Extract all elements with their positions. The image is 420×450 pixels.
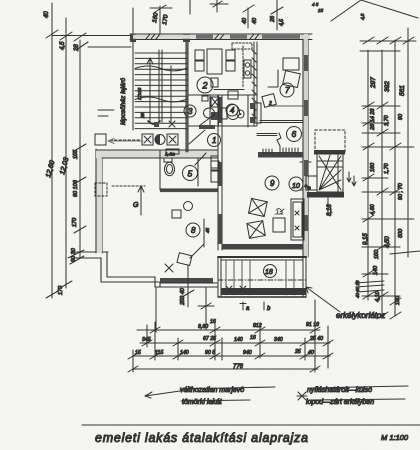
- svg-text:40: 40: [44, 11, 50, 18]
- svg-text:28: 28: [140, 112, 145, 119]
- svg-text:140: 140: [234, 337, 243, 343]
- svg-text:9,15: 9,15: [363, 233, 369, 245]
- svg-text:90: 90: [398, 113, 404, 120]
- svg-text:60 106: 60 106: [73, 179, 79, 197]
- svg-text:25: 25: [294, 349, 301, 355]
- svg-text:150: 150: [374, 249, 380, 259]
- svg-text:912: 912: [253, 323, 262, 329]
- svg-text:4,10: 4,10: [375, 290, 381, 302]
- svg-text:40: 40: [242, 17, 248, 24]
- svg-text:lépcsöház lejáró: lépcsöház lejáró: [120, 78, 127, 125]
- svg-text:2: 2: [268, 101, 272, 107]
- svg-text:91 18: 91 18: [306, 322, 319, 328]
- svg-text:140: 140: [373, 265, 379, 275]
- svg-text:115: 115: [155, 350, 163, 356]
- svg-text:16: 16: [250, 335, 256, 341]
- svg-text:9: 9: [270, 179, 275, 188]
- svg-text:10: 10: [292, 183, 300, 190]
- svg-text:28: 28: [74, 44, 80, 52]
- svg-text:250 40: 250 40: [180, 287, 186, 306]
- svg-text:1,4m: 1,4m: [165, 152, 175, 157]
- svg-text:16: 16: [210, 319, 216, 325]
- svg-text:140: 140: [180, 350, 189, 356]
- svg-text:170: 170: [72, 217, 78, 227]
- svg-text:4,60: 4,60: [370, 203, 376, 215]
- svg-text:17x18: 17x18: [137, 87, 142, 100]
- svg-text:28 14 28: 28 14 28: [370, 108, 376, 131]
- svg-text:2: 2: [202, 81, 208, 91]
- svg-text:561: 561: [399, 85, 406, 96]
- svg-text:90 , 70: 90 , 70: [398, 182, 404, 200]
- svg-text:G: G: [133, 202, 139, 209]
- svg-text:emeleti lakás átalakítási alap: emeleti lakás átalakítási alaprajza: [95, 431, 308, 445]
- svg-text:40: 40: [252, 17, 258, 24]
- svg-text:40 60 28: 40 60 28: [355, 280, 360, 298]
- svg-text:8: 8: [191, 226, 196, 235]
- svg-text:6: 6: [292, 129, 297, 139]
- svg-text:M 1:100: M 1:100: [381, 433, 409, 442]
- svg-text:4: 4: [230, 106, 235, 115]
- svg-text:4,5: 4,5: [60, 41, 66, 50]
- svg-text:4,50: 4,50: [385, 236, 391, 248]
- svg-text:170: 170: [58, 285, 64, 295]
- svg-text:3: 3: [188, 107, 193, 116]
- svg-text:190: 190: [395, 295, 401, 305]
- svg-text:1: 1: [212, 136, 216, 145]
- svg-text:7: 7: [285, 86, 290, 95]
- svg-text:776: 776: [233, 364, 244, 370]
- svg-text:26: 26: [270, 15, 276, 23]
- svg-text:90 30: 90 30: [71, 247, 77, 262]
- svg-text:345: 345: [142, 337, 151, 343]
- svg-text:160: 160: [370, 162, 376, 172]
- svg-text:940: 940: [243, 350, 252, 356]
- svg-text:4,5: 4,5: [360, 13, 365, 20]
- svg-text:4 5: 4 5: [312, 2, 319, 7]
- svg-text:5: 5: [188, 169, 193, 179]
- svg-text:67 25: 67 25: [203, 336, 216, 342]
- svg-text:4,5: 4,5: [279, 19, 285, 26]
- svg-text:40: 40: [308, 350, 314, 356]
- svg-text:erkélykorlátoz: erkélykorlátoz: [336, 311, 385, 320]
- svg-text:15: 15: [135, 350, 141, 356]
- svg-text:90 5: 90 5: [205, 350, 215, 356]
- svg-text:392: 392: [384, 81, 391, 92]
- svg-text:340: 340: [274, 337, 283, 343]
- svg-text:15: 15: [318, 8, 324, 13]
- svg-text:297: 297: [370, 77, 377, 89]
- svg-text:155: 155: [73, 149, 79, 159]
- svg-text:25 40: 25 40: [309, 336, 323, 342]
- svg-text:45: 45: [205, 227, 210, 233]
- svg-text:9,60: 9,60: [198, 324, 208, 330]
- svg-text:8,18: 8,18: [327, 204, 333, 216]
- svg-text:300: 300: [398, 228, 404, 238]
- svg-text:1,70: 1,70: [384, 114, 390, 126]
- svg-text:18: 18: [265, 269, 273, 276]
- svg-text:1,70: 1,70: [384, 162, 390, 174]
